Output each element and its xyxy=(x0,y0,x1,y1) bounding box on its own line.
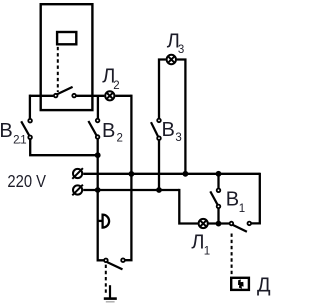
junction node A xyxy=(95,152,101,158)
relay coil (small rectangle) xyxy=(57,32,76,44)
junction node on neutral bus at bell branch xyxy=(95,187,101,193)
plug socket X2 (neutral) xyxy=(72,185,83,196)
wire vertical into switch V2.1 xyxy=(29,95,31,119)
bell xyxy=(103,215,109,228)
relay switch left contact xyxy=(54,94,58,98)
junction node on phase bus at lamp L2 branch xyxy=(129,171,135,177)
wire neutral bus from socket X2 to corner xyxy=(83,189,179,191)
wire from switch V1 bottom down to node B xyxy=(217,209,219,224)
junction node on neutral bus at switch V3 branch xyxy=(156,187,162,193)
ground knife switch right contact xyxy=(121,258,125,262)
lamp L1 xyxy=(199,219,208,228)
wire corner down to lamp L1 xyxy=(179,189,198,224)
junction node on phase bus at switch V1 branch xyxy=(216,171,222,177)
switch V3 top contact xyxy=(157,119,161,123)
svg-text:220 V: 220 V xyxy=(7,171,46,191)
svg-text:В: В xyxy=(162,119,175,141)
sensor D lightning symbol xyxy=(238,279,244,288)
ground knife switch blade xyxy=(107,262,122,269)
mechanical link dashed line from coil to contact xyxy=(57,47,59,92)
svg-text:В: В xyxy=(0,120,13,142)
svg-text:3: 3 xyxy=(175,132,181,144)
switch V2 bottom contact xyxy=(96,135,100,139)
switch V3 blade xyxy=(151,122,158,136)
wire lamp L3 left lead down to switch V3 xyxy=(159,60,166,119)
mechanical link dashed line from sensor D to switch xyxy=(231,234,233,276)
lamp L2 xyxy=(105,91,114,100)
svg-text:2.1: 2.1 xyxy=(13,135,27,147)
wire lamp L3 right lead down to phase bus xyxy=(177,60,186,174)
wire from V2.1 down and right to node A xyxy=(30,139,98,155)
plug socket X1 (phase) xyxy=(72,168,83,179)
switch V2 blade xyxy=(88,121,96,135)
wire bell stub xyxy=(98,220,103,222)
relay box (dashed-control apparatus enclosure) xyxy=(41,4,93,110)
sensor-operated switch blade xyxy=(233,225,247,232)
svg-text:В: В xyxy=(102,120,115,142)
wire vertical from lamp L2 corner down to bottom switch right side xyxy=(125,95,131,261)
junction node on phase bus at lamp L3 branch xyxy=(183,171,189,177)
wire switch V3 bottom down to neutral bus xyxy=(158,140,160,190)
sensor D box xyxy=(231,278,249,290)
switch V2.1 bottom contact xyxy=(28,136,32,140)
svg-text:2: 2 xyxy=(117,132,123,144)
wire between switch K and lamp L2 xyxy=(76,95,104,97)
switch V2.1 top contact xyxy=(28,119,32,123)
svg-text:1: 1 xyxy=(204,245,210,257)
wire vertical into switch V2 from top xyxy=(97,96,99,119)
svg-text:3: 3 xyxy=(178,44,184,56)
ground xyxy=(104,285,117,302)
switch V3 bottom contact xyxy=(157,136,161,140)
svg-text:Л: Л xyxy=(191,231,204,253)
switch V1 bottom contact xyxy=(217,205,221,209)
wire right corner down to switch SB right contact xyxy=(251,173,260,224)
wire lamp L1 to switch SB left contact xyxy=(209,222,230,224)
wire top horizontal to lamp L2 (left part) xyxy=(30,95,54,97)
switch V1 blade xyxy=(210,191,217,204)
switch V2.1 blade xyxy=(21,121,29,135)
svg-text:Д: Д xyxy=(257,275,271,297)
sensor-operated switch right contact xyxy=(248,222,252,226)
svg-text:2: 2 xyxy=(113,80,119,92)
switch V2 top contact xyxy=(96,119,100,123)
relay switch right contact xyxy=(72,94,76,98)
junction node B at lamp L1 / switch V1 xyxy=(216,221,222,227)
wire lamp L2 to right corner xyxy=(115,95,131,97)
svg-text:В: В xyxy=(226,189,239,211)
wire phase bus from socket X1 to right corner xyxy=(83,173,260,175)
mechanical link dashed line to ground xyxy=(105,265,107,295)
wire from V2 bottom through node A down to bottom switch left side xyxy=(98,139,104,260)
wire from bus down to switch V1 top xyxy=(217,174,219,188)
contact blade of relay switch xyxy=(57,87,73,95)
svg-text:1: 1 xyxy=(239,203,245,215)
ground knife switch left contact xyxy=(104,259,108,263)
sensor-operated switch left contact xyxy=(230,222,234,226)
lamp L3 xyxy=(167,55,176,64)
switch V1 top contact xyxy=(217,189,221,193)
